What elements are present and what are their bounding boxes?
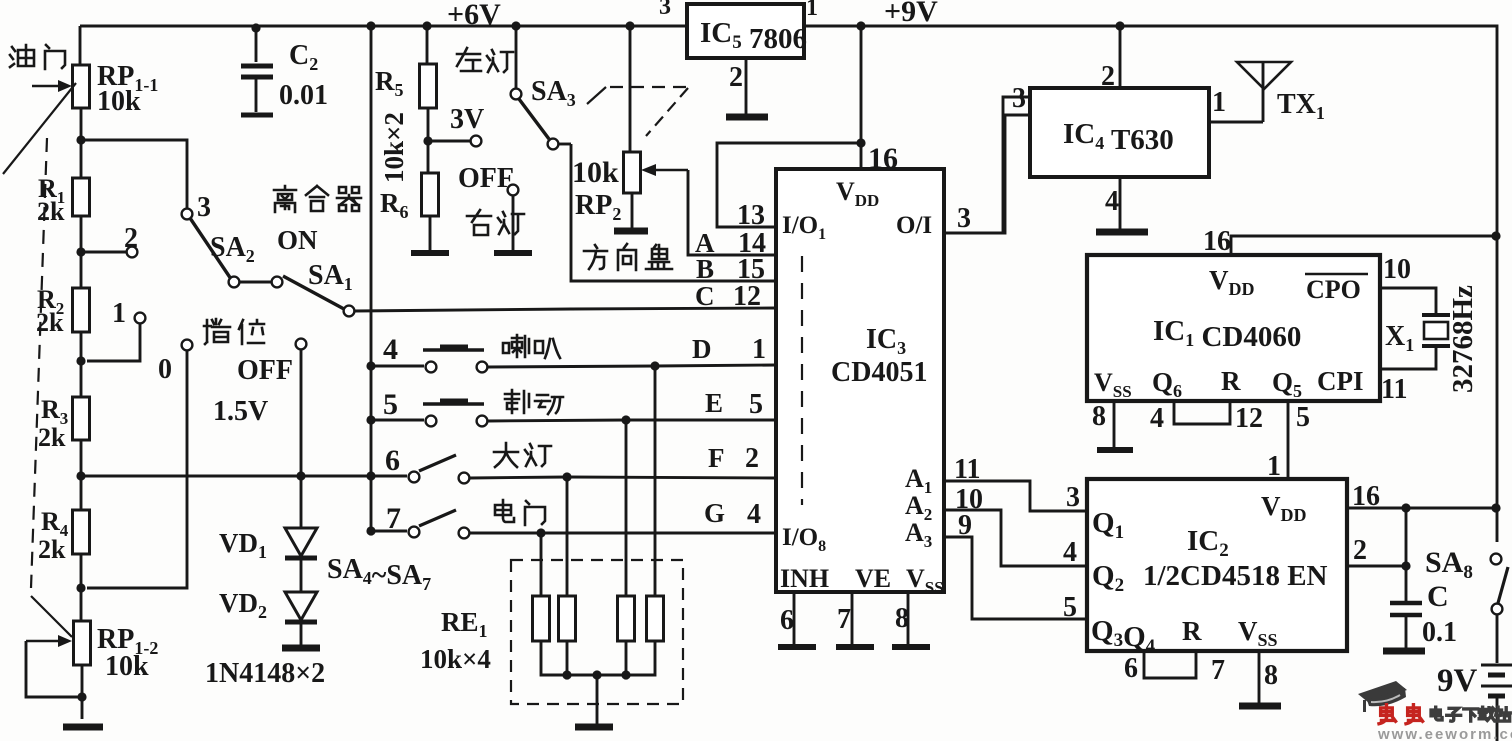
label 喇叭 horn [503,335,560,358]
label IC3 [866,324,906,358]
svg-text:3: 3 [659,0,671,20]
label IC2 [1187,525,1229,561]
watermark url [1377,726,1512,743]
wire SA3 pole to B bus [571,144,776,281]
label 6 row [385,444,400,477]
junction R5-R6 3V tap [423,108,481,173]
label 离合器 clutch [274,186,361,212]
svg-text:1: 1 [806,0,818,21]
pushbutton SA5 [371,401,487,426]
svg-text:1: 1 [752,334,766,365]
svg-text:1/2CD4518 EN: 1/2CD4518 EN [1143,560,1328,592]
svg-text:VE: VE [855,564,891,593]
ground C2 [241,113,273,118]
wire D bus [488,361,776,370]
pushbutton SA4 [371,347,487,372]
label 32768Hz vertical [1447,285,1479,393]
wire RE1 to ground [596,675,599,724]
svg-text:OFF: OFF [458,163,514,194]
svg-text:10k×2: 10k×2 [379,112,409,183]
contact 0 [87,340,192,588]
label 4 row [383,333,398,366]
junction rail R5 [422,21,431,30]
svg-text:6: 6 [780,605,794,636]
crystal X1 [1422,315,1450,346]
pin A 14 [695,228,766,259]
potentiometer RP1-2 [26,588,91,697]
svg-text:2k: 2k [37,197,65,226]
pin 6-7 loop IC2 [1124,651,1225,686]
resistor R6 [422,173,439,216]
label SA8 [1425,546,1473,583]
net +6V label [447,0,501,31]
label VD1 [219,528,267,562]
pin A3 9 [905,510,972,551]
counter IC2 CD4518 box [1087,479,1347,651]
switch SA7 [371,510,469,538]
mech linkage dashed SA3-RP2 [587,87,688,136]
label 10k x2 vertical [379,112,409,183]
wire F bus [470,472,776,481]
svg-text:7: 7 [1211,655,1225,686]
wire RP2 wiper to A bus [688,170,776,255]
svg-text:3V: 3V [450,104,484,135]
ground right-lamp [494,250,532,256]
label O/I [896,212,932,239]
pin 5 label IC2 [1063,592,1077,623]
pin B 15 [696,254,765,285]
pin 4 stub IC4 [1105,177,1120,229]
svg-text:0.01: 0.01 [279,80,328,111]
pin 3 label IC4 [1012,83,1026,114]
label OFF lamp [458,163,514,194]
contact OFF wire [296,339,307,476]
pin F 2 [708,443,759,474]
capacitor C2 [241,28,273,112]
svg-text:10k×4: 10k×4 [420,644,491,674]
watermark grad cap [1358,681,1407,712]
wire IC1 pin16 [1203,226,1496,257]
diode VD2 [285,560,317,622]
label VD2 [219,588,267,622]
svg-text:7: 7 [386,502,401,535]
svg-text:1: 1 [1212,87,1226,118]
svg-text:D: D [692,334,712,364]
svg-text:8: 8 [1092,401,1106,432]
svg-text:32768Hz: 32768Hz [1447,285,1479,393]
label 10k of RP2 [572,156,619,189]
label R3 2k [38,395,68,452]
pin 16 stub IC3 [861,142,898,175]
label 5 row [383,388,398,421]
pin 8 stub IC1 [1092,401,1114,447]
svg-text:0: 0 [158,354,172,385]
svg-text:R: R [1221,366,1241,396]
junction rail to switch-column [366,21,375,532]
svg-text:+9V: +9V [884,0,938,28]
label SA1 [308,260,353,294]
counter IC1 CD4060 box [1087,255,1380,401]
dashed IO separator [801,256,803,505]
svg-text:8: 8 [1264,660,1278,691]
junction R4-RP1-2 [76,554,85,593]
junction rail C2 [251,23,260,32]
svg-text:5: 5 [749,389,763,420]
label 1N4148x2 [205,658,325,689]
wire VDD drop to IC3 [856,21,865,143]
resistor RE1-a [533,533,550,641]
svg-text:ON: ON [277,225,318,255]
svg-text:0.1: 0.1 [1422,617,1457,648]
ground IC4 pin4 [1096,229,1148,236]
label Q1 [1092,507,1124,543]
wire RE1 common [541,641,655,680]
svg-text:1N4148×2: 1N4148×2 [205,658,325,689]
label TX1 [1277,89,1325,123]
label RP1-2 10k [97,624,158,682]
svg-text:13: 13 [737,200,765,231]
resistor RE1-d [647,366,664,641]
label SA3 [531,76,576,110]
pin 4 label IC2 [1063,537,1077,568]
switch SA6 [371,455,469,483]
pin 7 stub IC3 [837,592,852,644]
label 9V [1437,663,1478,699]
wire VD2 to ground [300,624,303,645]
junction RP1-2 bottom [77,665,86,719]
ground RE1 [575,724,613,731]
label R6 [380,188,409,222]
ground IC2 pin8 [1239,703,1281,710]
junction C-cap top [1401,503,1410,512]
junction IC3 VDD node [856,138,865,147]
label RP2 [575,190,621,224]
label Q3Q4 [1091,615,1156,657]
label CPO overline [1305,274,1368,304]
pin 5 wire Q5 to IC2 pin1 [1267,401,1310,482]
svg-text:3: 3 [197,192,211,223]
svg-text:4: 4 [1150,403,1164,434]
svg-text:C: C [695,281,715,311]
svg-text:2k: 2k [36,308,64,337]
label X1 [1385,321,1414,355]
svg-text:8: 8 [895,603,909,634]
ground IC5 pin2 [726,114,768,121]
wire pin13 loop [717,143,861,227]
label 大灯 headlamp [494,443,551,467]
net 3V label [450,104,484,135]
junction pin16 rail [1491,231,1500,240]
svg-text:10k: 10k [97,86,141,117]
wire +9V rail [804,26,1497,542]
label INH VE VSS [780,564,944,597]
label 右灯 right-lamp [467,210,524,235]
svg-text:7: 7 [837,604,851,635]
wire crystal to pin11 [1380,348,1436,369]
junction 1.5V diode tap [296,471,305,480]
svg-text:4: 4 [383,333,398,366]
label R VSS IC2 [1182,616,1278,650]
pin 2 stub IC4 [1101,26,1120,92]
contact right-lamp [508,185,519,250]
svg-text:OFF: OFF [237,355,293,386]
switch SA1 [240,276,354,316]
contact 1 [87,298,145,361]
resistor R2 [73,252,90,332]
svg-text:F: F [708,443,725,473]
label R1 2k [37,174,65,226]
svg-text:2k: 2k [38,535,66,564]
switch SA8 [1491,554,1508,615]
ground IC3 pin8 [892,644,930,650]
pin 8 stub IC2 [1259,651,1278,703]
svg-text:E: E [705,388,723,418]
antenna TX1 [1237,62,1291,122]
net +9V label [884,0,938,28]
label I/O8 [782,524,826,555]
junction R1-R2 [76,216,85,257]
pin 3 O/I wire [944,97,1030,234]
label VDD IC3 [836,177,879,210]
label RE1 [441,607,488,641]
pin 1 label of IC5 [806,0,818,21]
contact 2 [81,223,138,257]
svg-text:www.eeworm.com: www.eeworm.com [1377,726,1512,741]
resistor RE1-c [618,420,635,641]
ground IC1 pin8 [1097,447,1133,453]
wire E bus [488,415,776,424]
svg-text:O/I: O/I [896,212,932,239]
label 1/2CD4518 EN [1143,560,1328,592]
pin 13 label [737,200,765,231]
pin 1 stub IC4 [1209,87,1263,122]
battery 9V [1481,615,1512,741]
svg-text:2: 2 [745,443,759,474]
watermark 虫虫 red [1379,705,1423,724]
label RP1-1 10k [97,61,158,117]
svg-text:+6V: +6V [447,0,501,31]
pin E 5 [705,388,763,420]
svg-text:CPO: CPO [1306,275,1361,304]
pin 10 label [1383,254,1411,285]
svg-text:5: 5 [383,388,398,421]
label 方向盘 steering [584,244,672,270]
svg-text:2k: 2k [38,423,66,452]
regulator IC5 7806 [687,4,807,58]
junction row7 [366,526,375,535]
svg-text:2: 2 [124,223,138,254]
junction rail IC4 pin2 [1115,21,1124,30]
potentiometer RP2 [624,26,689,193]
svg-text:3: 3 [1066,482,1080,513]
svg-text:10k: 10k [572,156,619,189]
label I/O1 [782,212,826,243]
capacitor C [1390,566,1422,648]
pin 3 label IC2 [1066,482,1080,513]
pin 3 label of IC5 [659,0,671,20]
svg-text:6: 6 [1124,653,1138,684]
ground IC3 pin6 [778,644,816,650]
label VDD IC1 [1209,265,1255,299]
svg-text:16: 16 [1203,226,1231,257]
svg-text:B: B [696,254,714,284]
pin 6 stub IC3 [780,592,794,644]
label R2 2k [36,285,64,337]
label SA2 [210,232,255,266]
label 0.01 [279,80,328,111]
label ON [277,225,318,255]
label 制动 brake [505,390,563,414]
wire C bus from SA1 [354,308,776,311]
pin 4-12 reset loop [1150,401,1263,434]
svg-text:12: 12 [733,281,761,312]
svg-text:11: 11 [1381,374,1407,405]
svg-text:G: G [704,498,725,528]
mech linkage dashed RP1 gang [31,138,47,588]
label 0.1 [1422,617,1457,648]
svg-text:4: 4 [1063,537,1077,568]
wire to SA2 contact 3 [81,140,187,209]
transmitter IC4 T630 [1030,88,1209,177]
label R4 2k [38,507,69,564]
label 7 row [386,502,401,535]
label IC1 CD4060 [1153,315,1301,353]
mux IC3 CD4051 box [776,169,944,592]
label 油门 throttle [10,45,65,69]
wire A3 to IC2 Q3 [944,537,1089,619]
resistor RE1-b [559,477,576,641]
label CD4051 [831,357,927,388]
svg-text:4: 4 [747,499,761,530]
svg-text:2: 2 [729,62,743,93]
svg-text:INH: INH [780,564,829,593]
junction rail RP2 [625,21,634,30]
resistor R3 [73,361,90,440]
network RE1 dashed box [511,560,683,704]
wire A1 to IC2 Q1 [944,481,1089,511]
svg-text:12: 12 [1235,403,1263,434]
wire 1.5V row [81,475,407,478]
svg-text:CPI: CPI [1317,366,1364,396]
junction rail SA8 node [1491,503,1500,512]
svg-text:2: 2 [1353,535,1367,566]
junction row5 [366,415,375,424]
pin A2 10 [905,484,983,524]
svg-text:1: 1 [112,298,126,329]
svg-text:1.5V: 1.5V [213,396,268,427]
pin 2 stub of IC5 [729,58,746,114]
ground C [1383,648,1425,655]
resistor R4 [73,476,90,554]
pin 8 stub IC3 [895,592,909,644]
svg-text:R: R [1182,616,1202,646]
pin D 1 [692,334,766,365]
switch SA3 [511,26,571,149]
pin G 4 [704,498,761,530]
watermark 电子下载站 [1431,707,1510,721]
pin 11 label [1381,374,1407,405]
svg-text:5: 5 [1063,592,1077,623]
junction rail SA3 [511,21,520,30]
pin 16 wire IC2 [1347,481,1497,512]
wire G bus [470,528,776,537]
label 电门 ignition [495,500,545,525]
junction row6 [366,471,375,480]
label 左灯 left-lamp [457,48,513,72]
pin 3 wire IC4 [944,115,1030,233]
net 1.5V label [213,396,268,427]
diode VD1 [285,476,317,558]
junction row4 [366,361,375,370]
junction EN node [1401,508,1410,571]
svg-text:9V: 9V [1437,663,1478,699]
svg-text:4: 4 [1105,186,1119,217]
resistor R1 [73,140,90,216]
svg-text:16: 16 [1352,481,1380,512]
ground RP2 [614,228,648,235]
resistor R5 [420,26,437,108]
wire pin10 to crystal [1380,288,1436,314]
junction R2-R3 [76,332,85,366]
svg-text:5: 5 [1296,402,1310,433]
ground IC3 pin7 [836,644,874,650]
pin 2 EN wire [1347,535,1406,566]
svg-text:6: 6 [385,444,400,477]
pin A1 11 [905,454,980,497]
label OFF gear [237,355,293,386]
svg-text:10: 10 [1383,254,1411,285]
wire RP2 to ground [631,193,634,228]
label VSS Q6 R Q5 CPI [1094,366,1364,401]
switch SA2 [182,192,240,287]
wire +6V rail [80,25,687,28]
label C2 [289,40,318,74]
potentiometer RP1-1 [3,26,90,174]
svg-text:CD4051: CD4051 [831,357,927,388]
svg-text:C: C [1427,580,1449,613]
svg-text:10k: 10k [105,651,149,682]
label SA4~SA7 [327,554,431,594]
pin C 12 [695,281,761,312]
label R5 [375,66,404,100]
ground RP1-2 [63,724,103,731]
ground VD2 [282,645,320,652]
label Q2 [1092,560,1124,596]
junction R3-R4 [76,440,85,481]
label 挡位 gear [204,319,264,344]
junction RP1-1 bottom [76,108,85,145]
wire A2 to IC2 Q2 [944,510,1089,566]
svg-text:3: 3 [957,203,971,234]
label 10k x4 [420,644,491,674]
label VDD IC2 [1261,491,1307,525]
wire R6 to ground [429,216,432,250]
label C [1427,580,1449,613]
svg-text:3: 3 [1012,83,1026,114]
ground R6 [411,250,449,256]
